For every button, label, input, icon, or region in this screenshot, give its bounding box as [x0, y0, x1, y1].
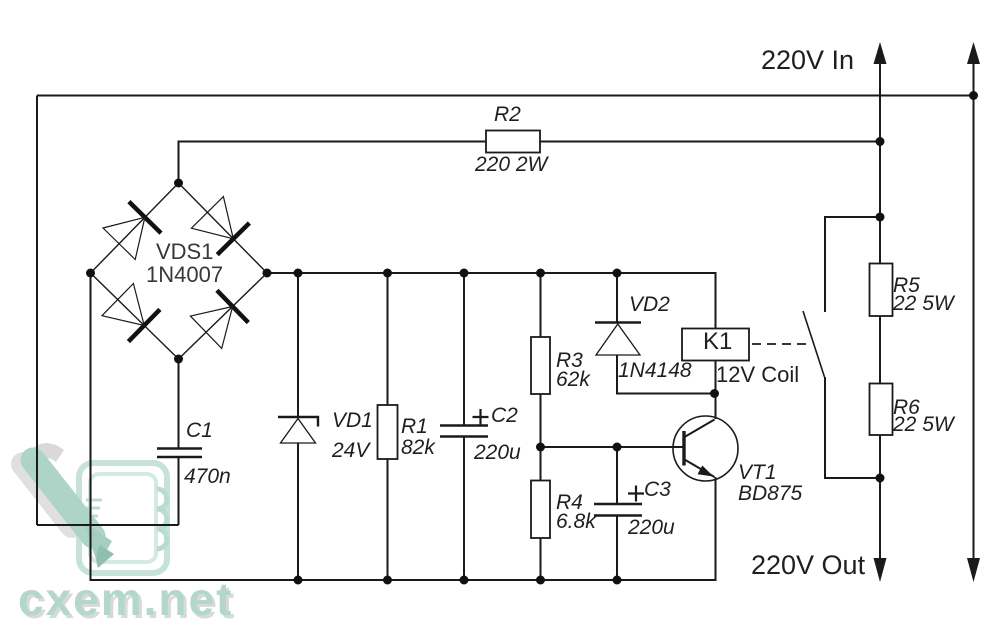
svg-text:82k: 82k [401, 436, 436, 459]
node C3 bottom [613, 576, 622, 585]
svg-text:24V: 24V [331, 439, 371, 462]
svg-text:C1: C1 [186, 419, 213, 442]
transistor VT1 emitter diagonal [685, 460, 715, 478]
svg-text:R1: R1 [401, 415, 428, 438]
switch branch upper wire [825, 217, 880, 312]
switch branch lower wire [825, 377, 880, 478]
node R4 bottom [536, 576, 545, 585]
svg-text:C2: C2 [491, 404, 518, 427]
C2 plus sign [473, 409, 489, 425]
node R1 bottom [383, 576, 392, 585]
svg-text:22 5W: 22 5W [892, 413, 956, 436]
node C2 top [460, 269, 469, 278]
capacitor C2 plates [440, 426, 488, 437]
svg-text:VD2: VD2 [629, 293, 670, 316]
node VD1 bottom [294, 576, 303, 585]
node bridge top [174, 179, 183, 188]
220V Out arrow (neutral) [967, 558, 980, 582]
node R2 to live [876, 137, 885, 146]
bridge diode D2 triangle [191, 197, 233, 239]
bridge diode D4 triangle [190, 307, 232, 349]
svg-text:BD875: BD875 [738, 482, 803, 505]
diode VD2 triangle [596, 324, 640, 355]
resistor R4 [531, 481, 550, 539]
svg-text:220 2W: 220 2W [474, 153, 550, 176]
node base junction [536, 443, 545, 452]
transistor VT1 emitter arrowhead [698, 466, 714, 477]
svg-text:62k: 62k [556, 368, 591, 391]
resistor R1 branch wires [387, 273, 389, 580]
node C2 bottom [460, 576, 469, 585]
watermark cxem.net logo (pencil and notepad) [23, 443, 167, 573]
svg-text:12V Coil: 12V Coil [716, 362, 799, 387]
C3 plus sign [628, 486, 644, 502]
svg-text:22 5W: 22 5W [892, 292, 956, 315]
relay K1 pins [715, 361, 717, 420]
capacitor C1 plates [157, 449, 202, 458]
bridge diode D3 triangle [102, 284, 144, 326]
bridge VDS1 arms [91, 183, 268, 359]
node switch bottom [876, 474, 885, 483]
wire: top DC bus [267, 273, 716, 329]
transistor VT1 base bar [682, 431, 685, 466]
resistor R1 [378, 405, 398, 459]
bridge diode D1 triangle [103, 217, 145, 259]
svg-text:VD1: VD1 [332, 409, 373, 432]
svg-text:470n: 470n [184, 465, 231, 488]
wire: C1 branch verticals [178, 359, 180, 525]
svg-text:R2: R2 [494, 103, 521, 126]
node C3 top junction [613, 443, 622, 452]
svg-text:VDS1: VDS1 [156, 239, 213, 264]
220V In arrow (neutral) [967, 42, 980, 64]
resistor R4 bottom wire [540, 538, 542, 580]
capacitor C3 branch wires [616, 447, 618, 580]
wire: top horizontal (neutral feed) [37, 95, 974, 97]
resistor R3 [531, 337, 550, 394]
resistor R2 [486, 131, 540, 153]
zener VD1 branch wires [297, 273, 299, 580]
wire: R2 to live line [540, 141, 880, 143]
svg-text:220V In: 220V In [761, 45, 854, 75]
node VD2 top [613, 269, 622, 278]
node bridge right [263, 269, 272, 278]
svg-text:K1: K1 [703, 328, 732, 355]
svg-text:VT1: VT1 [738, 461, 777, 484]
node R1 top [383, 269, 392, 278]
neutral line vertical [973, 48, 975, 574]
zener VD1 cathode bar with tick [278, 417, 318, 427]
transistor VT1 circle [673, 416, 738, 481]
svg-text:220u: 220u [473, 441, 521, 464]
svg-text:1N4148: 1N4148 [618, 359, 692, 382]
svg-text:6.8k: 6.8k [556, 510, 597, 533]
bridge diode D4 (bottom-right) bar [217, 290, 248, 322]
transistor VT1 collector diagonal [685, 420, 715, 438]
watermark text cxem.net [18, 573, 236, 628]
node switch top [876, 213, 885, 222]
220V Out arrow (live) [874, 558, 887, 582]
capacitor C2 branch wires [463, 273, 465, 580]
wire: bottom-left horizontal to C1 [37, 524, 179, 526]
node VD1 top [294, 269, 303, 278]
resistor R5 [870, 264, 893, 317]
220V In arrow (live) [874, 42, 887, 64]
node VD2/K1/collector junction [710, 389, 719, 398]
relay K1 coil box [682, 329, 749, 361]
diode VD2 cathode bar [595, 321, 641, 323]
svg-text:220V Out: 220V Out [751, 550, 866, 580]
node bridge bottom [174, 355, 183, 364]
live line vertical with terminals [879, 48, 881, 574]
resistor R6 [870, 384, 893, 436]
svg-text:1N4007: 1N4007 [146, 262, 223, 287]
dashed link K1 to contact [752, 343, 810, 345]
bridge diode D1 (top-left) bar [129, 202, 161, 234]
node bridge left [86, 269, 95, 278]
svg-text:220u: 220u [627, 516, 675, 539]
node R3 top [536, 269, 545, 278]
transistor VT1 emitter lead to bus [715, 477, 717, 580]
bridge diode D2 (top-right) bar [217, 223, 249, 255]
bridge diode D3 (bottom-left) bar [128, 309, 160, 341]
diode VD2 branch wires [617, 273, 715, 394]
wire: left frame vertical [36, 96, 38, 526]
zener VD1 triangle [281, 419, 316, 444]
resistor R3 branch wires [540, 273, 542, 481]
wire: bridge top to R2 [179, 142, 487, 184]
wire: base wire R3/R4 junction to VT1 [541, 446, 684, 448]
wire: bottom DC bus [91, 273, 716, 580]
capacitor C3 plates [594, 504, 642, 516]
node neutral top [969, 91, 978, 100]
svg-text:C3: C3 [644, 478, 671, 501]
switch blade K1.1 [803, 311, 825, 377]
